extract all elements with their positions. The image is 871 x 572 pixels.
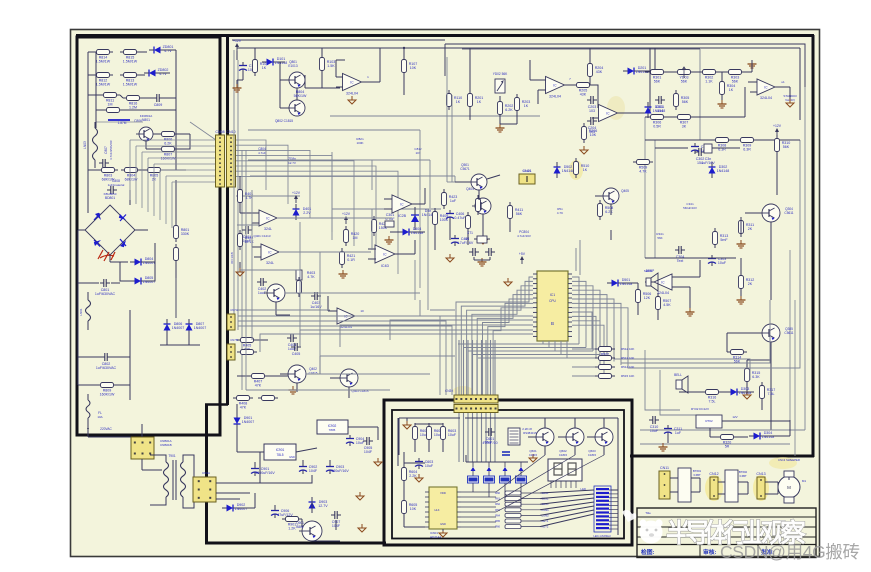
connector CN13	[757, 477, 765, 499]
title block col line1	[699, 545, 701, 558]
capacitor C310	[652, 416, 654, 424]
capacitor C320	[691, 146, 699, 148]
resistor R315	[745, 369, 750, 382]
resistor R202	[498, 102, 503, 115]
LED block LED601	[594, 486, 611, 532]
op-amp U7D	[375, 245, 395, 263]
resistor R510	[574, 162, 579, 175]
svg-text:LED-1.8x8Red: LED-1.8x8Red	[593, 534, 611, 538]
wire CN10 right fan	[236, 140, 266, 190]
capacitor C406	[446, 213, 454, 215]
connector CN11	[659, 471, 670, 499]
op-amp U6	[337, 308, 355, 324]
svg-text:1N4007: 1N4007	[242, 420, 255, 424]
svg-text:Q405: Q405	[621, 189, 629, 193]
svg-text:78L5: 78L5	[276, 453, 283, 457]
connector CN08	[216, 135, 225, 187]
svg-text:M1: M1	[802, 479, 806, 483]
svg-text:6.2K: 6.2K	[505, 108, 513, 112]
resistor array RS601	[508, 428, 520, 445]
capacitor C905	[366, 437, 368, 445]
wire res col	[521, 492, 540, 494]
capacitor C101	[239, 65, 247, 67]
resistor R402	[238, 234, 243, 247]
title block frame	[637, 508, 816, 558]
resistor R405	[241, 338, 254, 343]
diode D806	[164, 324, 171, 331]
wire vertical pair mid	[446, 57, 448, 182]
IC U10 CPU	[537, 271, 568, 341]
wire	[254, 48, 256, 56]
svg-text:10uF: 10uF	[356, 441, 365, 445]
ground	[532, 454, 534, 458]
wire	[593, 85, 598, 108]
wire mid horizontals2	[250, 175, 455, 177]
resistor R423	[442, 193, 447, 206]
wire	[78, 229, 85, 231]
svg-text:3K: 3K	[682, 125, 687, 129]
resistor R616	[505, 525, 521, 529]
capacitor C403	[314, 292, 316, 300]
capacitor C801	[103, 279, 105, 287]
svg-text:CN08: CN08	[215, 130, 224, 134]
switch SW601	[468, 476, 479, 483]
capacitor C904	[346, 438, 354, 440]
svg-text:1u/16V: 1u/16V	[310, 305, 322, 309]
resistor R313	[713, 232, 718, 245]
svg-text:1.5M/1W: 1.5M/1W	[123, 83, 138, 87]
resistor R815	[124, 50, 137, 55]
svg-text:1.2M: 1.2M	[129, 106, 137, 110]
diode D201	[628, 68, 635, 75]
capacitor C302	[698, 148, 700, 156]
capacitor C402	[260, 278, 262, 286]
svg-text:N801: N801	[142, 118, 150, 122]
svg-text:GND: GND	[289, 455, 295, 459]
power +12V arrow	[236, 45, 238, 51]
transistor Q402	[288, 365, 306, 383]
resistor R813	[124, 73, 137, 78]
svg-text:KBU8010: KBU8010	[104, 192, 117, 196]
svg-text:47K: 47K	[255, 384, 262, 388]
op-amp U2A	[546, 77, 565, 94]
bridge diode D1	[95, 213, 101, 220]
resistor R504	[599, 365, 612, 370]
svg-text:1000uF/16V: 1000uF/16V	[255, 471, 275, 475]
wire	[236, 51, 238, 60]
diode ZD801	[154, 47, 161, 54]
resistor R812	[97, 73, 110, 78]
transistor Q102	[289, 100, 305, 116]
resistor R502	[599, 347, 612, 352]
power +12V arrow	[776, 130, 778, 136]
title block row line4	[637, 544, 816, 546]
resistor R807	[162, 147, 175, 152]
svg-text:2.2V: 2.2V	[303, 211, 311, 215]
outer frame	[71, 30, 820, 557]
svg-text:1uF/material: 1uF/material	[108, 183, 125, 187]
switch SW602	[484, 476, 495, 483]
resistor R814	[97, 50, 110, 55]
diode D101	[267, 59, 274, 66]
ground	[351, 96, 353, 100]
svg-text:3.6BT: 3.6BT	[739, 474, 747, 478]
svg-text:E1013: E1013	[288, 64, 297, 68]
ground	[359, 492, 361, 496]
diode D805	[135, 278, 142, 285]
ground	[721, 100, 723, 104]
wire	[530, 79, 546, 81]
ground	[388, 236, 390, 240]
svg-text:4.7nF/250VDC: 4.7nF/250VDC	[109, 139, 113, 160]
svg-text:56K: 56K	[657, 236, 662, 240]
svg-text:4.7K: 4.7K	[307, 275, 315, 279]
wire	[153, 133, 158, 135]
svg-text:CN12: CN12	[709, 472, 718, 476]
capacitor C303	[708, 258, 716, 260]
capacitor C311	[664, 428, 672, 430]
capacitor C903	[326, 466, 334, 468]
svg-text:7.5L: 7.5L	[709, 400, 716, 404]
svg-text:43K: 43K	[596, 70, 603, 74]
transistor Q406	[471, 174, 487, 190]
wire	[238, 507, 255, 509]
resistor R803	[102, 168, 115, 173]
svg-text:Q401 C1213: Q401 C1213	[253, 234, 270, 238]
resistor R810	[107, 108, 120, 113]
wire	[141, 459, 143, 470]
main block right border	[812, 35, 815, 457]
title block row line3	[637, 536, 816, 538]
svg-text:56K: 56K	[654, 80, 661, 84]
resistor R311	[739, 221, 744, 234]
svg-text:+12V: +12V	[773, 124, 782, 128]
capacitor C301	[658, 96, 660, 104]
wire	[403, 48, 405, 59]
title block row line2	[637, 526, 816, 528]
resistor R805	[148, 168, 161, 173]
svg-text:1.87M: 1.87M	[118, 121, 127, 125]
op-amp U5A	[259, 210, 277, 226]
resistor R110	[447, 94, 452, 107]
wire IC left fan	[456, 277, 533, 395]
diode D804	[135, 259, 142, 266]
svg-text:220VAC: 220VAC	[100, 427, 112, 431]
svg-text:3.6BT: 3.6BT	[693, 473, 701, 477]
diode D604	[519, 467, 524, 471]
capacitor C602 bars	[502, 451, 510, 453]
highlight	[705, 475, 723, 501]
wire	[236, 429, 238, 452]
transistor Q603	[595, 428, 613, 446]
svg-text:BELL: BELL	[674, 373, 682, 377]
capacitor C411	[451, 238, 459, 240]
svg-text:C5611: C5611	[784, 211, 793, 215]
wire	[655, 147, 688, 149]
resistor R501	[476, 199, 481, 212]
svg-text:GND: GND	[440, 522, 446, 526]
wire	[166, 335, 168, 345]
wire	[672, 276, 700, 278]
power +12V arrow	[345, 218, 347, 224]
display digit 8 left	[554, 463, 562, 475]
wire	[721, 72, 723, 81]
bridge diode D3	[94, 240, 101, 246]
main block left border	[226, 35, 229, 405]
svg-text:1K: 1K	[477, 100, 482, 104]
ground	[239, 268, 241, 272]
ground	[292, 386, 294, 390]
svg-text:YD02 56K: YD02 56K	[493, 72, 508, 76]
bridge diode D2	[119, 214, 126, 220]
wire mesh h2	[237, 309, 330, 311]
capacitor C404	[290, 334, 292, 342]
wire	[403, 452, 405, 465]
svg-text:10uF: 10uF	[718, 261, 727, 265]
wire	[776, 153, 778, 195]
svg-text:12K: 12K	[644, 296, 651, 300]
svg-text:R512 10K: R512 10K	[621, 347, 634, 351]
resistor R308	[716, 138, 729, 143]
bridge diode D4	[120, 240, 126, 247]
op-amp U2B	[599, 105, 618, 122]
capacitor C321	[704, 144, 712, 153]
wire buttons down	[472, 483, 474, 492]
svg-text:RT02: RT02	[705, 419, 713, 423]
wire	[77, 330, 79, 357]
svg-text:10: 10	[360, 309, 364, 313]
svg-text:1N4007: 1N4007	[194, 326, 207, 330]
svg-text:HLK: HLK	[434, 508, 439, 512]
resistor R421	[340, 252, 345, 265]
svg-text:C1815: C1815	[588, 453, 597, 457]
svg-text:Q802 C1815: Q802 C1815	[275, 119, 293, 123]
wire top right bus	[660, 47, 800, 49]
svg-text:4.7K: 4.7K	[639, 170, 647, 174]
resistor R320	[721, 435, 734, 440]
diode D403	[411, 215, 419, 222]
resistor R304	[720, 82, 725, 95]
capacitor C203	[590, 96, 592, 104]
resistor R420	[344, 230, 349, 243]
resistor R411	[508, 206, 513, 219]
svg-text:B: B	[551, 321, 554, 326]
IC U601 HD614	[429, 487, 457, 529]
resistor R404	[297, 281, 302, 294]
wire right verticals	[699, 49, 701, 140]
speaker BELL	[676, 380, 682, 389]
diode D502	[554, 167, 561, 174]
bottom block inner border	[392, 410, 624, 539]
svg-text:M: M	[787, 485, 791, 490]
wire mid lower runs	[645, 350, 680, 410]
title block row line1	[637, 516, 816, 518]
resistor R102	[253, 60, 258, 73]
highlight mark	[453, 386, 473, 396]
transformer T901 primary coil	[164, 462, 169, 497]
capacitor Cx1	[472, 248, 474, 256]
svg-text:104F: 104F	[309, 469, 318, 473]
transformer T901 core	[172, 460, 174, 500]
op-amp U1A	[343, 74, 362, 91]
svg-text:1uF: 1uF	[675, 431, 682, 435]
svg-text:1.5M/1W: 1.5M/1W	[96, 83, 111, 87]
resistor R303	[729, 70, 742, 75]
ground	[689, 308, 691, 312]
svg-text:324L04: 324L04	[760, 96, 772, 100]
connector CN30 bottom row	[454, 405, 498, 413]
svg-text:56K: 56K	[783, 145, 790, 149]
transformer T801 primary coil	[93, 128, 98, 160]
svg-text:B861: B861	[296, 525, 304, 529]
svg-text:7805: 7805	[329, 428, 336, 432]
ground	[418, 474, 420, 478]
wire	[623, 282, 638, 284]
svg-text:IC4D: IC4D	[381, 264, 390, 268]
resistor R422	[372, 220, 377, 233]
svg-text:4.7uF/16V: 4.7uF/16V	[457, 241, 474, 245]
svg-text:1N4148: 1N4148	[717, 169, 730, 173]
svg-text:1uF/630VAC: 1uF/630VAC	[96, 366, 117, 370]
svg-text:10uF: 10uF	[425, 464, 434, 468]
svg-text:2K: 2K	[748, 282, 753, 286]
transistor Q101	[289, 72, 305, 88]
svg-text:324L: 324L	[266, 261, 274, 265]
wire mesh v	[245, 150, 247, 390]
label KN bus	[230, 252, 234, 263]
left block border	[77, 37, 220, 435]
svg-text:KN 1/1B: KN 1/1B	[230, 252, 234, 263]
svg-text:324L: 324L	[264, 227, 272, 231]
regulator IC902	[317, 420, 348, 434]
ground	[449, 254, 451, 258]
svg-text:1K: 1K	[262, 66, 267, 70]
wire led wires	[540, 490, 594, 493]
power block step border	[205, 403, 228, 405]
resistor R310	[775, 139, 780, 152]
svg-text:0.1R: 0.1R	[347, 258, 355, 262]
capacitor C809	[156, 94, 158, 102]
svg-text:1M: 1M	[353, 236, 358, 240]
svg-text:BD801: BD801	[105, 196, 115, 200]
svg-text:43K: 43K	[580, 93, 587, 97]
wire right lower runs	[640, 429, 805, 431]
svg-text:324L04: 324L04	[346, 92, 358, 96]
capacitor C901	[251, 468, 259, 470]
resistor R306	[651, 115, 664, 120]
wire	[415, 423, 443, 425]
svg-text:5mF: 5mF	[720, 238, 728, 242]
wire	[88, 169, 98, 171]
pot YD02	[495, 79, 505, 93]
resistor R602	[427, 427, 432, 440]
diode D602	[487, 467, 492, 471]
wire	[718, 481, 725, 483]
wire far right verticals	[789, 250, 791, 420]
svg-text:160K/1W: 160K/1W	[161, 157, 176, 161]
resistor R201	[468, 94, 473, 107]
resistor R205	[577, 83, 590, 88]
resistor R309	[741, 138, 754, 143]
svg-text:1K: 1K	[456, 100, 461, 104]
svg-text:CNB01B: CNB01B	[160, 443, 172, 447]
svg-text:C1815: C1815	[529, 453, 538, 457]
diode D901	[234, 418, 241, 425]
svg-text:C809: C809	[154, 103, 163, 107]
wire	[328, 310, 337, 312]
svg-text:10uF: 10uF	[448, 433, 457, 437]
wire	[434, 228, 436, 250]
resistor R802v	[174, 248, 179, 261]
wire mesh h	[277, 217, 392, 219]
resistor R508	[598, 204, 603, 217]
wire	[455, 181, 470, 183]
svg-text:560uF/16V: 560uF/16V	[683, 206, 697, 210]
svg-text:RY02 DC12V: RY02 DC12V	[691, 407, 709, 411]
wire stair bundle left of bus	[238, 316, 440, 395]
wire top loop	[445, 44, 805, 87]
svg-text:10K: 10K	[590, 133, 597, 137]
svg-text:CPU: CPU	[549, 299, 556, 303]
wire	[96, 121, 143, 123]
resistor R305	[674, 94, 679, 107]
wire	[336, 76, 343, 78]
ground	[482, 236, 484, 240]
svg-text:104F: 104F	[364, 450, 373, 454]
resistor R604	[402, 468, 407, 481]
wire	[110, 261, 128, 263]
wire	[645, 257, 736, 259]
svg-text:56K: 56K	[681, 80, 688, 84]
connector CN7B	[227, 344, 235, 360]
main block top border	[76, 34, 814, 37]
component box K11	[678, 468, 691, 502]
resistor R408	[237, 396, 250, 401]
wire	[667, 436, 669, 443]
wire	[748, 81, 757, 83]
wire	[280, 79, 289, 81]
highlight mark	[569, 160, 583, 180]
wire	[639, 70, 655, 72]
svg-text:10K: 10K	[410, 66, 417, 70]
ground	[342, 270, 344, 274]
svg-text:12.7V: 12.7V	[318, 504, 328, 508]
node hatch	[108, 119, 130, 121]
resistor R302	[703, 70, 716, 75]
resistor R612	[505, 502, 521, 506]
svg-text:4.7K: 4.7K	[557, 211, 563, 215]
crystal XT1	[477, 236, 487, 243]
red mains scribble	[98, 250, 115, 261]
component box K12	[725, 470, 738, 502]
watermark panda logo	[640, 521, 663, 544]
resistor R206	[582, 127, 587, 140]
title block col line2	[757, 545, 759, 558]
diode D404	[403, 229, 410, 236]
svg-text:7.5L: 7.5L	[768, 392, 775, 396]
svg-text:2.2K: 2.2K	[409, 474, 417, 478]
resistor R605	[402, 501, 407, 514]
op-amp U7B	[392, 195, 412, 213]
wire right rail bottom block	[617, 418, 619, 535]
svg-text:1N4007: 1N4007	[172, 326, 185, 330]
op-amp U3	[757, 79, 775, 95]
svg-text:2K: 2K	[748, 227, 753, 231]
ground	[751, 60, 753, 64]
capacitor C410	[385, 221, 394, 227]
resistor R503	[599, 356, 612, 361]
connector CN30 top row	[454, 395, 498, 403]
